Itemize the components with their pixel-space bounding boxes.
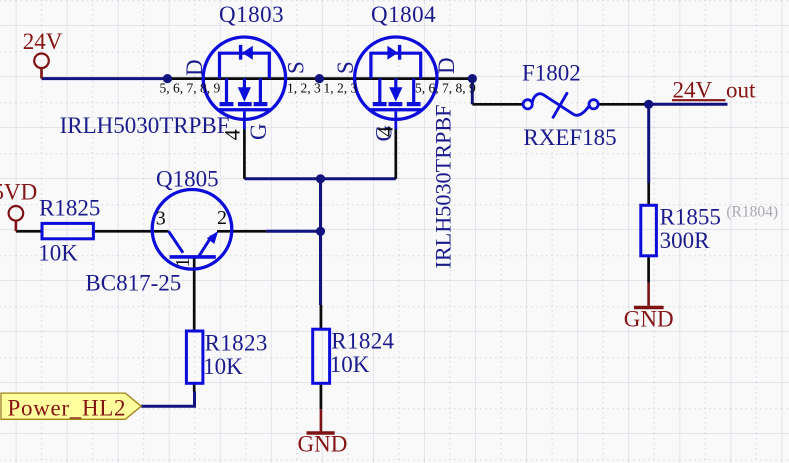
svg-text:S: S — [333, 61, 358, 74]
svg-text:Q1804: Q1804 — [371, 2, 436, 27]
svg-text:5, 6, 7, 8, 9: 5, 6, 7, 8, 9 — [160, 81, 221, 96]
svg-text:R1824: R1824 — [331, 328, 394, 353]
svg-text:1: 1 — [172, 258, 194, 268]
svg-text:10K: 10K — [330, 352, 370, 377]
svg-text:Power_HL2: Power_HL2 — [8, 395, 127, 420]
svg-text:1, 2, 3: 1, 2, 3 — [324, 81, 358, 96]
svg-text:Q1803: Q1803 — [219, 2, 284, 27]
svg-text:out: out — [726, 78, 756, 103]
svg-text:5VD: 5VD — [0, 180, 37, 205]
svg-text:Q1805: Q1805 — [156, 167, 219, 192]
svg-text:10K: 10K — [38, 241, 78, 266]
svg-text:1, 2, 3: 1, 2, 3 — [287, 81, 321, 96]
svg-text:D: D — [182, 59, 207, 76]
svg-text:RXEF185: RXEF185 — [523, 125, 616, 150]
svg-text:5, 6, 7, 8, 9: 5, 6, 7, 8, 9 — [415, 81, 476, 96]
svg-text:GND: GND — [624, 307, 674, 332]
svg-text:F1802: F1802 — [522, 61, 581, 86]
svg-text:(R1804): (R1804) — [726, 203, 778, 220]
svg-text:10K: 10K — [203, 354, 243, 379]
svg-text:BC817-25: BC817-25 — [85, 271, 181, 296]
svg-text:R1825: R1825 — [39, 195, 100, 220]
svg-text:G: G — [246, 123, 271, 140]
svg-text:24V: 24V — [673, 78, 713, 103]
svg-text:R1823: R1823 — [205, 330, 268, 355]
svg-text:3: 3 — [156, 207, 166, 229]
svg-text:2: 2 — [217, 207, 227, 229]
svg-text:4: 4 — [219, 129, 244, 140]
svg-text:300R: 300R — [660, 228, 711, 253]
svg-text:24V: 24V — [23, 29, 63, 54]
svg-text:GND: GND — [298, 432, 348, 457]
svg-text:S: S — [284, 61, 309, 74]
svg-text:4: 4 — [373, 126, 398, 137]
svg-text:R1855: R1855 — [660, 205, 721, 230]
svg-text:D: D — [434, 57, 459, 74]
svg-text:IRLH5030TRPBF: IRLH5030TRPBF — [60, 113, 230, 138]
svg-text:IRLH5030TRPBF: IRLH5030TRPBF — [431, 105, 456, 269]
